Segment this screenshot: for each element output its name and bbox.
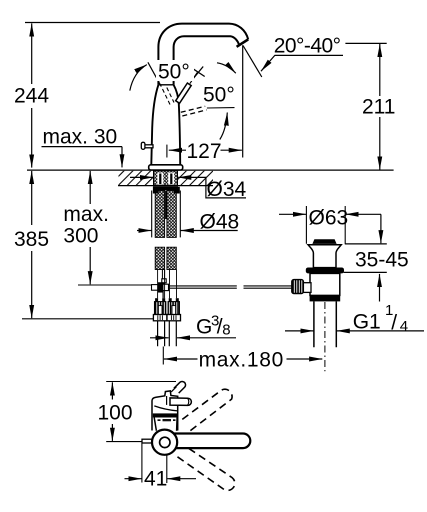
drain flange [306,268,344,274]
lever mirror line [148,62,161,86]
spout tip vertical extension [242,45,244,157]
svg-text:G: G [196,315,212,338]
rod knob and connector [292,280,311,294]
front view axis reference line [106,441,142,443]
front view lower body sides [154,418,177,431]
dimension 41 [125,444,197,491]
flexible hoses upper [155,191,176,238]
drain locknut band [310,295,341,301]
base plate [149,165,183,170]
dimension 127 [167,140,242,163]
drain funnel body [308,245,341,268]
svg-text:Ø48: Ø48 [200,210,240,233]
mounting washer and nut [153,187,180,194]
front view spout stub [171,381,185,393]
dimension 244 [14,23,49,167]
front view hub outer circle [152,430,177,455]
drain body [310,273,340,295]
front view lever [167,396,192,405]
svg-text:Ø34: Ø34 [207,178,247,201]
svg-text:35-45: 35-45 [355,248,409,271]
svg-text:100: 100 [98,402,133,425]
svg-text:127: 127 [187,140,222,163]
svg-text:4: 4 [400,318,408,335]
top reference line [25,22,160,24]
arc handle lift 50 [130,65,147,91]
svg-text:41: 41 [144,468,167,491]
dimension 385 [14,171,153,319]
lever extension and cross mark [190,67,205,84]
riser joint line [158,84,173,86]
dash extension line [207,107,235,109]
dimension 35-45 [344,214,409,301]
handle lever solid [176,83,192,103]
drain plug cap [312,239,336,244]
pop-up knob [141,142,153,149]
svg-text:20°-40°: 20°-40° [274,34,341,57]
threaded shank in deck [154,171,178,187]
mounting envelope lines [152,191,181,238]
svg-text:50°: 50° [158,61,190,84]
front view pop-up stub [142,439,152,443]
dimension diameter 48 [137,210,239,233]
pull rod lower [162,270,164,284]
arc 50 deg 2 [220,113,228,140]
flexible hoses lower [155,247,176,269]
rod linkage joint [152,279,169,298]
dimension diameter 63 [279,206,381,244]
dashed spout position lower [176,448,235,490]
label 20-40 with leader [261,34,343,71]
svg-text:G1: G1 [353,310,381,333]
swivel arc [217,63,236,73]
svg-text:max.180: max.180 [199,348,284,371]
angle reference line 20-40 [243,46,262,78]
drain centerline [324,302,326,371]
drain tailpipe [314,301,336,347]
svg-text:max.: max. [63,203,109,226]
dimension G1 1/4 [285,302,424,335]
dimension 100 [98,382,133,441]
G3/8 connector nuts [153,298,180,346]
svg-text:/: / [391,312,397,335]
svg-text:244: 244 [14,85,49,108]
front view collar arc [154,406,177,411]
label 50 deg 1 [156,60,194,84]
svg-text:max. 30: max. 30 [43,126,118,149]
dashed spout position upper [182,389,232,432]
hose tails to connectors [158,270,177,299]
horizontal pop-up rod [170,286,293,288]
front view hub inner circle [160,437,170,447]
front view logo specks [158,419,176,421]
front view seam band [153,413,178,417]
front view solid spout bar [170,434,250,449]
svg-text:50°: 50° [203,84,235,107]
deck cross-section with hatching [118,171,213,186]
spout tip face [237,39,249,46]
body outline [151,85,180,165]
dimension max.180 [163,347,322,372]
spout outline [158,24,248,85]
front view top reference line [106,381,176,383]
cartridge hidden dashes [163,88,175,106]
svg-text:300: 300 [63,224,98,247]
svg-text:211: 211 [362,96,395,119]
dimension max.300 [63,171,151,285]
pull rod in shank [165,191,167,219]
dashed lever open [181,106,207,116]
dimension diameter 34 [130,177,247,201]
dimension max.30 [42,126,123,168]
dimension G3/8 [150,313,236,339]
counter top line [27,169,394,171]
dimension 211 [345,43,395,169]
svg-text:Ø63: Ø63 [309,207,349,230]
svg-text:8: 8 [222,321,230,338]
svg-text:385: 385 [14,228,49,251]
front view body [152,391,178,431]
